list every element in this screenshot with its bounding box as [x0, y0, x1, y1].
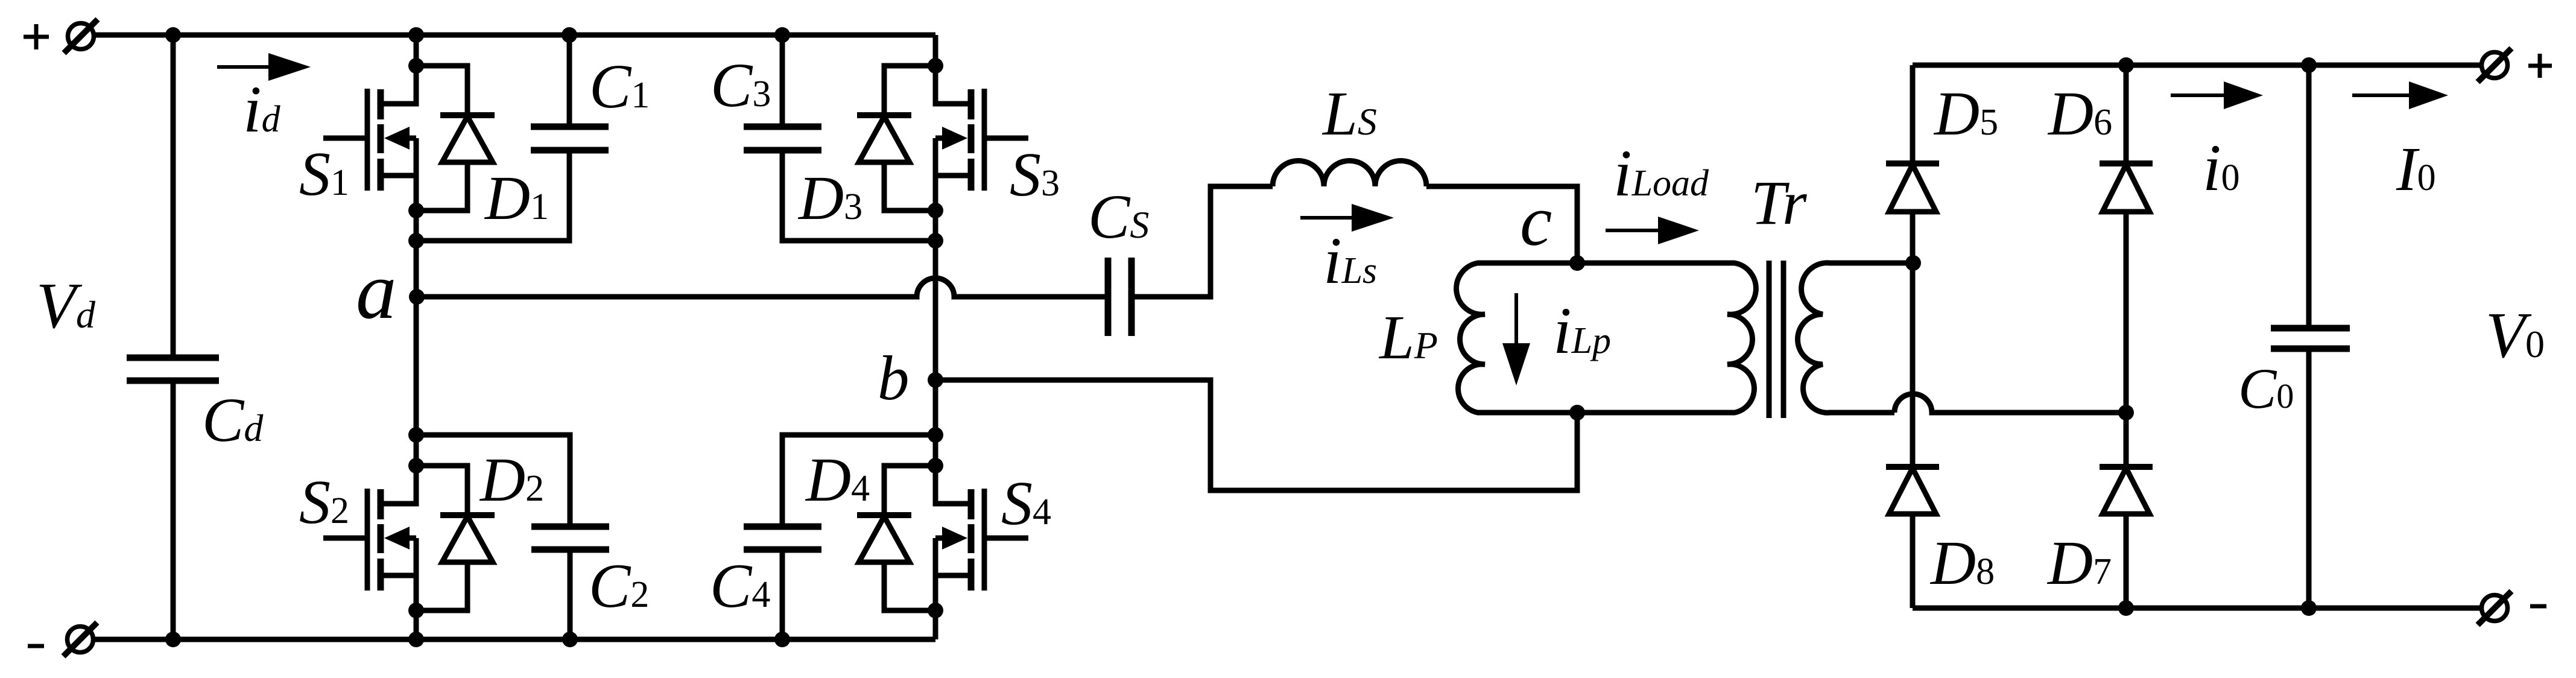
capacitor C3: [744, 35, 935, 241]
transformer Tr secondary winding: [1798, 263, 1914, 413]
svg-text:a: a: [356, 246, 397, 336]
node C4 top: [928, 427, 943, 443]
svg-text:LP: LP: [1378, 303, 1438, 372]
node C1 bottom: [408, 233, 424, 249]
svg-text:iLoad: iLoad: [1613, 136, 1709, 210]
wire left leg upper: [414, 35, 419, 104]
node a: [409, 289, 425, 305]
node S3 source: [928, 203, 943, 218]
wire rectifier left branch: [1910, 65, 1916, 608]
wire secondary bottom with hop: [1894, 394, 2126, 413]
wire Cs to Ls: [1131, 186, 1273, 297]
arrow iLp: [1502, 293, 1530, 385]
capacitor Cd: [127, 35, 219, 639]
svg-text:D8: D8: [1929, 528, 1995, 598]
svg-text:iLp: iLp: [1553, 294, 1611, 367]
node C1 top: [562, 27, 577, 43]
svg-text:S4: S4: [1001, 469, 1051, 538]
wire left leg middle: [414, 138, 419, 504]
svg-text:i0: i0: [2203, 131, 2240, 204]
svg-text:Tr: Tr: [1751, 168, 1807, 238]
arrow i0: [2171, 81, 2263, 109]
svg-text:C0: C0: [2238, 356, 2294, 420]
terminal output minus: [2478, 591, 2511, 625]
node S4 drain: [928, 458, 943, 474]
terminal input plus: [64, 19, 98, 53]
capacitor C1: [416, 35, 609, 241]
diode D1: [416, 66, 495, 211]
transistor S1: [323, 66, 416, 211]
node S3 drain: [928, 58, 943, 74]
capacitor C0: [2271, 65, 2350, 608]
arrow id: [217, 53, 311, 81]
label - (input): [28, 644, 44, 648]
transistor S4: [935, 466, 1028, 610]
transformer Tr core: [1769, 261, 1783, 418]
wire node b loop: [935, 380, 1577, 490]
svg-text:C2: C2: [589, 551, 649, 621]
svg-text:I0: I0: [2396, 135, 2436, 204]
node S4 source: [928, 603, 943, 618]
transistor S3: [935, 66, 1028, 211]
svg-text:iLs: iLs: [1323, 224, 1377, 297]
wire output top rail: [1913, 63, 2481, 68]
diode D3: [857, 66, 935, 211]
node input bottom junction: [165, 632, 181, 647]
node D6 top: [2118, 57, 2134, 73]
svg-text:CS: CS: [1088, 182, 1149, 252]
svg-text:S3: S3: [1010, 140, 1060, 209]
svg-text:c: c: [1520, 180, 1552, 261]
diode D8: [1886, 467, 1939, 514]
capacitor C4: [744, 435, 935, 639]
wire output bottom rail: [1913, 606, 2481, 611]
svg-text:C1: C1: [589, 52, 650, 121]
diode D7: [2100, 467, 2153, 514]
wire node a to Cs with hop: [417, 278, 1108, 297]
node C2 top: [408, 427, 424, 443]
inductor Lp: [1457, 263, 1577, 413]
node C0 top: [2301, 57, 2317, 73]
node S1 source: [408, 203, 424, 218]
node C4 bottom: [774, 632, 790, 647]
node S2 source: [408, 603, 424, 618]
diode D2: [416, 466, 495, 610]
node C3 bottom: [928, 233, 943, 249]
wire Ls to node c: [1426, 186, 1577, 263]
diode D5: [1886, 163, 1939, 212]
svg-text:D1: D1: [484, 163, 549, 233]
svg-text:Cd: Cd: [202, 385, 264, 455]
capacitor Cs: [1108, 258, 1131, 336]
svg-text:LS: LS: [1321, 79, 1377, 148]
node bottom rail S2 leg: [408, 632, 424, 647]
svg-text:C3: C3: [710, 51, 771, 120]
transistor S2: [323, 466, 416, 610]
node C3 top: [774, 27, 790, 43]
arrow iLs: [1300, 204, 1394, 232]
terminal input minus: [63, 623, 97, 656]
wire right leg upper: [933, 35, 938, 104]
node Lp bottom: [1569, 405, 1585, 420]
wire rectifier right branch: [2124, 65, 2129, 608]
node secondary top: [1905, 255, 1921, 271]
node b: [928, 372, 943, 388]
svg-text:S1: S1: [299, 139, 349, 209]
wire left leg lower: [414, 538, 419, 639]
svg-text:D6: D6: [2047, 79, 2112, 148]
svg-text:D4: D4: [805, 445, 870, 515]
node C0 bottom: [2301, 600, 2317, 616]
svg-text:id: id: [243, 72, 281, 146]
wire right leg middle: [933, 138, 938, 504]
wire top rail: [95, 33, 935, 38]
capacitor C2: [416, 435, 609, 639]
svg-text:D5: D5: [1933, 79, 1998, 148]
arrow I0: [2352, 81, 2448, 109]
svg-text:b: b: [878, 343, 910, 413]
svg-text:Vd: Vd: [36, 270, 96, 342]
node secondary bottom D7: [2118, 405, 2134, 420]
label - (output): [2530, 604, 2546, 609]
svg-text:C4: C4: [710, 551, 770, 621]
label + (input): [24, 24, 49, 49]
svg-text:V0: V0: [2486, 300, 2545, 372]
node top rail S1 leg: [408, 27, 424, 43]
wire bottom rail: [94, 637, 935, 642]
label + (output): [2528, 54, 2552, 78]
node input top junction: [165, 27, 181, 43]
node c: [1569, 255, 1585, 271]
arrow iLoad: [1606, 217, 1699, 244]
wire right leg lower: [933, 538, 938, 639]
node D7 bottom: [2118, 600, 2134, 616]
node C2 bottom: [562, 632, 578, 647]
svg-text:D2: D2: [479, 445, 544, 515]
svg-text:D7: D7: [2046, 528, 2112, 598]
node S2 drain: [408, 458, 424, 474]
diode D6: [2100, 163, 2153, 212]
inductor Ls: [1273, 161, 1426, 187]
node S1 drain: [408, 58, 424, 74]
transformer Tr primary winding: [1577, 263, 1756, 413]
svg-text:D3: D3: [797, 163, 862, 233]
diode D4: [857, 466, 935, 610]
terminal output plus: [2478, 48, 2511, 82]
svg-text:S2: S2: [299, 467, 349, 537]
